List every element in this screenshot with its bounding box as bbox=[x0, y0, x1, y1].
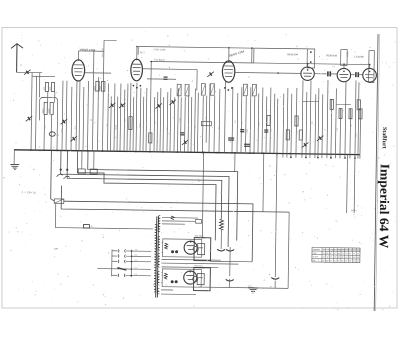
wire big loop V1 bbox=[288, 212, 289, 288]
wire VM7 bbox=[126, 84, 129, 152]
svg-text:47: 47 bbox=[322, 260, 324, 262]
electrolytic C17 bbox=[217, 248, 225, 251]
svg-text:1000: 1000 bbox=[49, 108, 51, 114]
wire VF3 bbox=[295, 88, 298, 158]
wire VM11 bbox=[139, 88, 142, 152]
wire VR1 bbox=[205, 96, 208, 143]
wire V6 top bbox=[369, 65, 371, 69]
wire VL6 bbox=[54, 92, 56, 103]
IF transformer T1a bbox=[177, 84, 181, 96]
wire VF6 bbox=[310, 81, 311, 158]
trimmer C2 bbox=[26, 116, 32, 121]
wire VM19 bbox=[166, 92, 169, 152]
tube V2 pin cluster bbox=[132, 85, 134, 87]
wire VL8 bbox=[61, 81, 64, 151]
wire rect V8 out bbox=[197, 277, 203, 279]
resistor R5 box bbox=[295, 116, 298, 126]
wire VF8 bbox=[317, 88, 320, 158]
wire VL14 bbox=[86, 81, 89, 151]
svg-text:Imperial 64 W: Imperial 64 W bbox=[377, 164, 393, 249]
wire VR11 bbox=[253, 48, 255, 63]
wire V4 top bbox=[307, 64, 309, 67]
wire VF0 bbox=[282, 94, 285, 158]
lamp La bbox=[49, 132, 60, 137]
wire loop B bbox=[60, 150, 230, 247]
wire loop A bbox=[87, 151, 238, 241]
wire V2 top cap bbox=[136, 47, 138, 60]
svg-text:-2000: -2000 bbox=[247, 285, 252, 287]
resistor R3 box bbox=[267, 116, 270, 126]
svg-text:74: 74 bbox=[353, 261, 355, 263]
svg-text:1000: 1000 bbox=[43, 108, 45, 114]
wire VR8 bbox=[240, 87, 243, 153]
wire long V x277 bbox=[275, 153, 277, 275]
wire VL3 bbox=[43, 114, 45, 150]
svg-text:92: 92 bbox=[338, 257, 340, 259]
wire VM9 bbox=[132, 97, 135, 152]
svg-text:61: 61 bbox=[323, 253, 325, 255]
wire VM2 bbox=[109, 96, 112, 151]
svg-text:125: 125 bbox=[134, 267, 137, 269]
transformer primary winding bbox=[154, 224, 157, 292]
box 2607 bbox=[341, 50, 348, 66]
wire VL12 bbox=[78, 81, 81, 151]
wire VF17 bbox=[358, 82, 359, 158]
resistor R1 box bbox=[129, 117, 132, 130]
wire secondary S8 bbox=[160, 272, 163, 274]
wire loop E bbox=[51, 150, 55, 201]
pickup Ts bbox=[83, 225, 93, 229]
trimmer C3 bbox=[61, 119, 67, 124]
svg-text:95: 95 bbox=[345, 260, 347, 262]
table of voltages bbox=[312, 247, 361, 262]
svg-text:38: 38 bbox=[338, 253, 340, 255]
wire VL9 bbox=[65, 81, 68, 151]
wire v235 bbox=[234, 153, 236, 172]
svg-text:2700–1280: 2700–1280 bbox=[153, 48, 166, 51]
wire pickup vertical bbox=[54, 204, 56, 228]
coil L3 box bbox=[50, 103, 53, 115]
svg-text:34: 34 bbox=[349, 257, 351, 259]
jack box bbox=[307, 49, 315, 68]
wire V3 top cap bbox=[228, 48, 230, 61]
coil frame L1 bbox=[39, 97, 57, 120]
ground bus bbox=[14, 150, 360, 155]
grid leak R14 bbox=[201, 122, 211, 126]
resistor R9 oval bbox=[359, 109, 362, 119]
svg-text:2· = 12b+1g: 2· = 12b+1g bbox=[21, 190, 36, 194]
wire secondary S9 bbox=[160, 282, 163, 284]
jack inner marks bbox=[310, 51, 312, 53]
resistor R8 oval bbox=[349, 109, 352, 119]
cap C16 bbox=[244, 144, 250, 146]
svg-text:76: 76 bbox=[342, 253, 344, 255]
transformer secondary winding 1 bbox=[158, 216, 160, 232]
wire R12 drop bbox=[81, 151, 83, 169]
choke L6 bbox=[219, 219, 223, 230]
wire VL0 bbox=[31, 73, 32, 150]
svg-text:21: 21 bbox=[334, 260, 336, 262]
trimmer C4 bbox=[70, 136, 76, 141]
wire VR0 bbox=[201, 96, 204, 153]
wire VR5 bbox=[224, 80, 225, 153]
wire VL1 bbox=[36, 76, 37, 150]
antenna A1 bbox=[11, 44, 23, 73]
svg-text:57: 57 bbox=[330, 260, 332, 262]
wire VL13 bbox=[82, 87, 85, 151]
wire VM22 bbox=[176, 88, 179, 152]
transformer secondary winding 5 bbox=[157, 289, 159, 294]
svg-text:31: 31 bbox=[353, 257, 355, 259]
wire VL16 bbox=[97, 77, 98, 151]
wire VF15 bbox=[349, 109, 352, 159]
wire VM24 bbox=[183, 97, 186, 152]
wire VM23 bbox=[179, 97, 182, 152]
wire H1 drop left bbox=[137, 47, 139, 55]
wire secondary S2 bbox=[162, 223, 185, 225]
svg-text:Uanode: Uanode bbox=[313, 249, 321, 251]
wire VL11 bbox=[75, 81, 78, 151]
wire V5 to C21 bbox=[351, 74, 355, 76]
svg-text:80: 80 bbox=[326, 253, 328, 255]
svg-text:800 v: 800 v bbox=[351, 210, 357, 212]
svg-text:17: 17 bbox=[334, 253, 336, 255]
wire VF11 bbox=[330, 99, 333, 158]
resistor R10 box bbox=[330, 99, 333, 109]
svg-text:37: 37 bbox=[330, 257, 332, 259]
wire VM8 bbox=[129, 83, 132, 152]
dots lower bus bbox=[203, 152, 205, 154]
svg-text:49: 49 bbox=[357, 257, 359, 259]
wire VF2 bbox=[290, 94, 293, 158]
tube V5 bbox=[337, 68, 351, 82]
transformer core bbox=[156, 217, 159, 298]
trimmer C6 bbox=[109, 103, 115, 108]
wire C21 to V6 bbox=[358, 74, 363, 76]
wire secondary S3 bbox=[161, 242, 164, 244]
svg-text:220: 220 bbox=[135, 254, 138, 256]
IF transformer T1b bbox=[185, 84, 189, 96]
wire loop C bbox=[67, 151, 223, 220]
wire secondary S4 bbox=[161, 252, 164, 254]
svg-text:MF: MF bbox=[55, 248, 59, 251]
svg-text:78: 78 bbox=[345, 253, 347, 255]
svg-text:23: 23 bbox=[323, 257, 325, 259]
wire VR7 bbox=[236, 93, 239, 153]
coil L7 box bbox=[96, 81, 100, 91]
wire VF7 bbox=[314, 94, 317, 158]
svg-text:41: 41 bbox=[357, 261, 359, 263]
resistor box R30 bbox=[369, 51, 375, 83]
resistor R2 box bbox=[149, 133, 152, 143]
wire speaker2 feed bbox=[210, 260, 252, 263]
tube V3 bbox=[222, 60, 235, 82]
wire VR15 bbox=[261, 87, 264, 153]
transformer secondary winding 2 bbox=[158, 237, 160, 251]
wire secondary S10 bbox=[161, 289, 173, 291]
tube V4 bbox=[301, 67, 315, 81]
svg-text:87: 87 bbox=[338, 260, 340, 262]
wire big loop V3 bbox=[353, 155, 356, 213]
wire VM12 bbox=[142, 97, 145, 152]
wire rect V7 out bbox=[197, 247, 203, 249]
wire VR9 bbox=[244, 96, 247, 153]
wire VF18 bbox=[359, 109, 362, 159]
svg-text:Ap.1: Ap.1 bbox=[140, 51, 145, 54]
rectifier loop V7 bbox=[163, 239, 202, 257]
trimmer C10 bbox=[302, 142, 308, 147]
resistor R13 box bbox=[90, 169, 97, 174]
trimmer C11 bbox=[317, 136, 323, 141]
IF transformer T2b bbox=[210, 84, 214, 96]
trimmer C8 bbox=[169, 100, 175, 105]
heater box bbox=[195, 220, 201, 224]
svg-text:150: 150 bbox=[134, 260, 137, 262]
voltage tap wires bbox=[130, 249, 151, 276]
wire R13 drop bbox=[93, 151, 95, 169]
wire secondary S6 bbox=[161, 263, 238, 264]
wire secondary S0 bbox=[162, 217, 198, 220]
wire VF13 bbox=[339, 109, 342, 159]
electrolytic C19 bbox=[226, 279, 234, 288]
trimmer C5 bbox=[119, 103, 125, 108]
wire link right b bbox=[336, 103, 350, 105]
switch S1 contacts bbox=[57, 168, 70, 178]
wire VM20 bbox=[169, 88, 172, 152]
svg-text:110: 110 bbox=[134, 274, 137, 276]
dots on bus right bbox=[290, 156, 292, 158]
svg-text:47: 47 bbox=[330, 253, 332, 255]
wire big loop V2 bbox=[346, 154, 349, 212]
svg-text:REN 904: REN 904 bbox=[326, 53, 337, 57]
wire VM26 bbox=[190, 97, 193, 152]
svg-text:43: 43 bbox=[342, 257, 344, 259]
speaker LS1 bbox=[193, 238, 211, 261]
wire top bus H2 bbox=[150, 61, 369, 64]
rectifier cap blob 1 bbox=[171, 250, 174, 253]
svg-text:240: 240 bbox=[135, 249, 138, 251]
wire VF10 bbox=[327, 80, 328, 158]
wire VR18 bbox=[273, 94, 276, 154]
svg-text:53: 53 bbox=[341, 260, 343, 262]
IF transformer T2a bbox=[201, 84, 205, 96]
wire VM16 bbox=[156, 92, 159, 152]
transformer secondary winding 3 bbox=[157, 254, 159, 268]
wire VL10 bbox=[70, 87, 73, 151]
wire secondary S1 bbox=[162, 220, 195, 222]
resistor R12 box bbox=[78, 169, 85, 174]
wire loop F bbox=[61, 186, 289, 212]
dots on bus bbox=[30, 149, 32, 151]
wire v263 bbox=[262, 153, 265, 211]
svg-text:59: 59 bbox=[349, 261, 351, 263]
wire V4 to C coupling bbox=[314, 73, 326, 75]
svg-text:Ia mA: Ia mA bbox=[313, 255, 319, 258]
wire V1 grid top bbox=[77, 51, 79, 60]
rectifier resistor R21 bbox=[164, 273, 167, 279]
wire VM25 bbox=[187, 88, 190, 152]
svg-text:13: 13 bbox=[334, 257, 336, 259]
wire VR16 bbox=[265, 97, 268, 154]
wire VM10 bbox=[135, 83, 138, 152]
wire VM0 bbox=[102, 40, 104, 151]
resistor R4 box bbox=[286, 130, 289, 140]
wire VR14 bbox=[257, 93, 260, 153]
title separator line bbox=[374, 34, 378, 311]
wire link right a bbox=[303, 101, 319, 103]
wire VM17 bbox=[159, 88, 162, 152]
capacitor C14 bbox=[264, 130, 268, 132]
wire VR13 bbox=[253, 96, 256, 153]
svg-text:43: 43 bbox=[326, 257, 328, 259]
wire VM13 bbox=[145, 88, 148, 152]
wire VL15 bbox=[92, 51, 93, 151]
wire choke drop bbox=[220, 230, 222, 248]
wire VF9 bbox=[321, 94, 324, 158]
coil L2 box bbox=[44, 102, 47, 114]
wire VL4 bbox=[47, 91, 49, 102]
tube V6 bbox=[363, 68, 377, 82]
rectifier cap blob 2 bbox=[171, 280, 174, 283]
svg-text:44: 44 bbox=[345, 257, 347, 259]
wire VM28 bbox=[196, 93, 199, 153]
resistor R7 oval bbox=[339, 109, 342, 119]
svg-text:REN 904: REN 904 bbox=[287, 52, 298, 56]
wire VR12 bbox=[249, 87, 252, 153]
trimmer capacitor C1 bbox=[24, 70, 31, 75]
wire V2 anode bbox=[142, 68, 197, 71]
ground symbol bbox=[10, 164, 19, 169]
wire loop D bbox=[76, 151, 216, 241]
wire VM5 bbox=[119, 83, 122, 151]
wire bus to ground bbox=[13, 150, 15, 165]
IF transformer T3b bbox=[252, 84, 256, 96]
electrolytic C18 bbox=[226, 249, 234, 251]
wire VR17 bbox=[269, 88, 272, 154]
coil L4 box bbox=[45, 82, 48, 91]
speaker LS2 bbox=[192, 268, 210, 291]
trimmer C9 bbox=[182, 140, 188, 145]
wire VR19 bbox=[276, 99, 279, 158]
wire top bus H1 bbox=[138, 47, 307, 49]
wire VF16 bbox=[355, 80, 356, 158]
wire VM1 bbox=[106, 83, 109, 151]
wire 232 drop bbox=[229, 247, 231, 276]
wire VF14 bbox=[345, 82, 346, 159]
wire y77 link bbox=[147, 78, 176, 80]
wire secondary S7 bbox=[161, 266, 218, 269]
svg-text:TSL Band.: TSL Band. bbox=[154, 59, 166, 62]
ground symbol 2 bbox=[247, 285, 258, 293]
wire VM15 bbox=[153, 97, 156, 152]
wire coil coupling bbox=[32, 75, 55, 77]
wire VF5 bbox=[305, 92, 308, 158]
wire VM3 bbox=[113, 83, 116, 151]
cap C15 bbox=[228, 138, 234, 140]
tube V3 pin cluster bbox=[224, 87, 226, 89]
rectifier tube V7 bbox=[184, 241, 197, 254]
wire VM21 bbox=[173, 97, 176, 152]
wire secondary S11 bbox=[161, 293, 196, 295]
mains wire bbox=[97, 268, 131, 270]
wire VR6 bbox=[231, 87, 234, 153]
wire y39 stub bbox=[104, 39, 116, 41]
capacitor C12 bbox=[180, 133, 184, 135]
voltage selector left bbox=[112, 249, 119, 277]
wire speaker1 feed bbox=[202, 152, 203, 237]
wire VM6 bbox=[123, 90, 126, 152]
wire VF12 bbox=[334, 88, 337, 158]
wire VR3 bbox=[213, 96, 216, 153]
wire secondary S5 bbox=[161, 258, 220, 261]
wire VL5 bbox=[50, 115, 52, 151]
svg-text:L.V.4200: L.V.4200 bbox=[354, 56, 364, 59]
svg-text:56: 56 bbox=[349, 253, 351, 255]
wire VM27 bbox=[193, 89, 196, 153]
junction dots misc bbox=[136, 46, 138, 48]
capacitor C13 bbox=[240, 130, 244, 132]
wire VM18 bbox=[162, 97, 165, 152]
rectifier loop V8 bbox=[162, 269, 201, 287]
IF transformer T3a bbox=[243, 84, 247, 96]
wire C20 to V5 bbox=[330, 73, 337, 75]
svg-text:90: 90 bbox=[326, 260, 328, 262]
svg-text:Staßfurt: Staßfurt bbox=[381, 127, 387, 149]
fuse box F1 bbox=[54, 199, 64, 204]
tube V1 bbox=[72, 59, 85, 81]
coil L5 box bbox=[51, 83, 54, 92]
voltage selector right bbox=[124, 249, 131, 277]
wire VL7 bbox=[56, 121, 58, 151]
wire VL2 bbox=[38, 73, 40, 98]
resistor R6 box bbox=[299, 130, 302, 140]
resistor R11 box bbox=[357, 100, 360, 110]
wire V3 anode bbox=[235, 71, 301, 74]
svg-text:2607: 2607 bbox=[346, 52, 348, 58]
electrolytic C22 bbox=[269, 274, 280, 289]
svg-text:32: 32 bbox=[357, 253, 359, 255]
coupling capacitor C21 bbox=[356, 72, 358, 77]
wire V5 top bbox=[343, 64, 345, 68]
wire VR4 bbox=[218, 89, 221, 153]
rectifier resistor R20 bbox=[165, 243, 168, 249]
zigzag top bbox=[171, 216, 174, 220]
wire VF4 bbox=[302, 80, 303, 157]
transformer secondary winding 4 bbox=[157, 272, 159, 286]
wire VR2 bbox=[208, 84, 211, 153]
coil L8 box bbox=[101, 81, 105, 91]
svg-text:45: 45 bbox=[353, 253, 355, 255]
trimmer C24 bbox=[207, 72, 213, 77]
wire VR10 bbox=[251, 48, 253, 63]
capacitor C23 bbox=[164, 76, 168, 78]
wire pickup line bbox=[55, 228, 152, 229]
wire VM14 bbox=[150, 62, 151, 152]
wire antenna to C1 bbox=[17, 71, 42, 73]
wire V1 anode bbox=[85, 72, 111, 74]
tube V2 bbox=[131, 59, 143, 81]
coupling capacitor C20 bbox=[328, 71, 330, 76]
wire VF1 bbox=[286, 88, 289, 158]
wire VM4 bbox=[116, 96, 119, 151]
rectifier tube V8 bbox=[184, 271, 197, 284]
trimmer C7 bbox=[155, 103, 161, 108]
bottom rail bbox=[198, 287, 288, 288]
